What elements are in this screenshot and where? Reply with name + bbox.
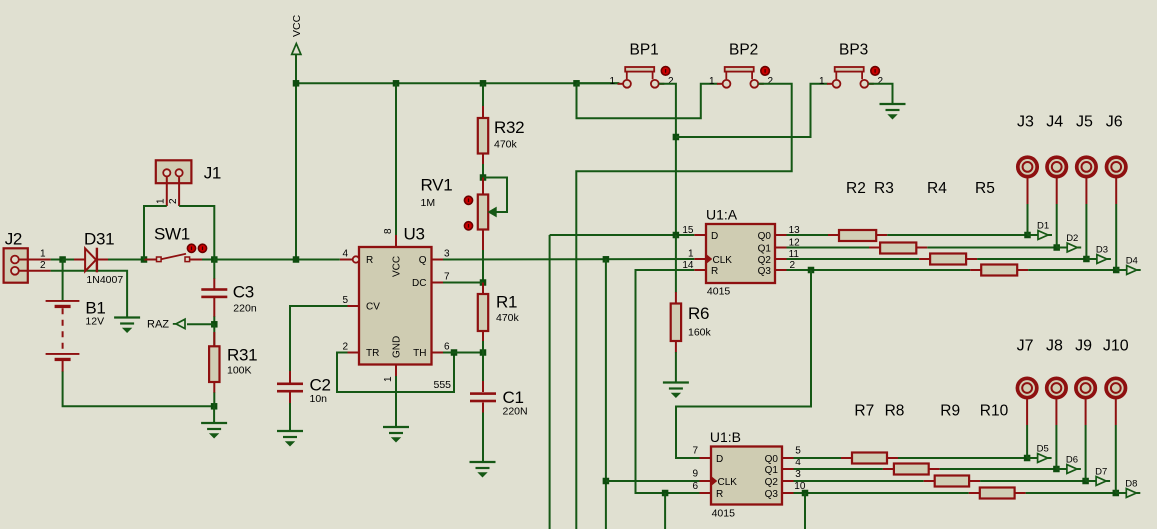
U3 pin 2 TR stub	[348, 352, 360, 354]
shift register U1:B body	[711, 447, 782, 505]
node D4 output arrow	[1116, 269, 1127, 271]
resistor R10	[969, 492, 980, 494]
switch SW1	[144, 259, 157, 261]
wire J1 pin2 to main line	[179, 206, 214, 260]
svg-text:2: 2	[768, 76, 774, 87]
svg-text:RAZ: RAZ	[147, 319, 169, 331]
op-amp U3 555 timer body	[359, 247, 432, 365]
svg-text:D3: D3	[1096, 245, 1108, 256]
svg-text:TR: TR	[366, 348, 379, 359]
U3 pin 6 TH stub	[432, 352, 444, 354]
svg-text:R1: R1	[496, 293, 517, 312]
svg-text:D6: D6	[1066, 455, 1078, 466]
junction rail/BP feed	[573, 80, 580, 87]
wire J9 to D7 node	[1085, 425, 1087, 481]
U1:B pin 6 R stub	[700, 492, 712, 494]
wire TH to C1 node	[443, 352, 483, 354]
svg-text:C1: C1	[503, 388, 524, 407]
wire Q1 to R8	[794, 468, 883, 470]
svg-text:D5: D5	[1037, 444, 1049, 455]
wire C1 to ground	[482, 413, 484, 463]
U1:B pin 10 Q3 stub	[782, 492, 794, 494]
svg-text:J10: J10	[1103, 338, 1129, 355]
ground C2	[277, 430, 303, 432]
wire R9 to J9 node D7	[980, 480, 1086, 482]
wire BP2 pin2 chain	[576, 84, 791, 529]
U1:B pin 3 Q2 stub	[782, 480, 794, 482]
svg-text:VCC: VCC	[392, 256, 403, 277]
capacitor C2	[289, 371, 291, 383]
U1:A pin 15 D stub	[694, 234, 706, 236]
node D6 output arrow	[1056, 468, 1067, 470]
junction R31/B1/ground	[211, 403, 218, 410]
svg-text:D: D	[711, 231, 718, 242]
junction rail/R32	[480, 80, 487, 87]
connector J1	[156, 160, 192, 183]
svg-text:J7: J7	[1017, 338, 1034, 355]
U1:B pin 7 D stub	[700, 457, 712, 459]
svg-text:5: 5	[795, 446, 801, 457]
svg-text:R7: R7	[854, 403, 874, 420]
junction DC node	[480, 279, 487, 286]
svg-text:BP2: BP2	[729, 42, 758, 59]
wire R5 to J6 node D4	[1028, 269, 1116, 271]
svg-text:2: 2	[878, 76, 884, 87]
svg-text:1: 1	[609, 76, 615, 87]
wire Q3 drop to bottom edge	[804, 493, 806, 529]
svg-text:Q0: Q0	[758, 231, 772, 242]
junction J10/D8	[1113, 490, 1120, 497]
wire DC to R1 node	[443, 282, 483, 284]
svg-text:D7: D7	[1095, 467, 1107, 478]
wire U3 pin8 from rail	[395, 83, 397, 236]
svg-text:VCC: VCC	[291, 14, 303, 37]
capacitor C1	[482, 381, 484, 392]
svg-text:R4: R4	[927, 180, 947, 197]
svg-text:10n: 10n	[310, 393, 328, 405]
junction BP1 chain / BP3 feed	[673, 134, 680, 141]
svg-text:R3: R3	[874, 180, 894, 197]
svg-text:U3: U3	[404, 225, 425, 244]
U1:A pin 1 CLK stub	[694, 258, 706, 260]
ground U3 pin1	[383, 426, 409, 428]
svg-text:9: 9	[692, 468, 698, 479]
svg-text:D4: D4	[1126, 256, 1138, 267]
svg-text:J8: J8	[1046, 338, 1063, 355]
junction RAZ node	[211, 321, 218, 328]
svg-text:4: 4	[342, 249, 348, 260]
wire J10 to D8 node	[1115, 425, 1117, 493]
wire R10 to J10 node D8	[1026, 492, 1116, 494]
svg-text:R8: R8	[885, 403, 905, 420]
wire J2 pin1 to node	[51, 259, 63, 261]
junction J5/D3	[1083, 256, 1090, 263]
svg-text:J1: J1	[204, 164, 221, 183]
U1:A pin 2 Q3 stub	[775, 269, 787, 271]
wire R8 to J8 node D6	[940, 468, 1057, 470]
node D2 output arrow	[1057, 247, 1068, 249]
wire C3 to RAZ node	[213, 317, 215, 325]
svg-text:U1:B: U1:B	[710, 429, 741, 445]
resistor R31	[213, 324, 215, 346]
wire rail to R32	[482, 83, 484, 107]
wire R31 to ground node	[213, 393, 215, 407]
svg-text:J2: J2	[5, 230, 22, 249]
U1:A pin 14 R stub	[694, 269, 706, 271]
node D8 output arrow	[1116, 492, 1127, 494]
junction J8/D6	[1053, 466, 1060, 473]
wire Q2 to R9	[794, 480, 924, 482]
wire R4 to J5 node D3	[977, 258, 1086, 260]
wire CV to C2	[290, 306, 348, 372]
node D7 output arrow	[1086, 480, 1097, 482]
U3 pin 5 CV stub	[348, 305, 360, 307]
svg-text:Q0: Q0	[765, 454, 779, 465]
svg-text:2: 2	[342, 342, 348, 353]
wire J3 to D1 node	[1027, 204, 1029, 235]
wire D node to R6	[675, 235, 677, 293]
svg-text:J9: J9	[1075, 338, 1092, 355]
svg-text:Q3: Q3	[758, 266, 772, 277]
resistor R5	[970, 269, 981, 271]
wire RV1 wiper loop	[483, 178, 507, 213]
svg-text:8: 8	[383, 228, 394, 234]
svg-text:3: 3	[444, 249, 450, 260]
U1:B pin 5 Q0 stub	[782, 457, 794, 459]
J1 pin 2 stub	[178, 176, 180, 206]
wire B1 minus to ground node	[63, 372, 215, 407]
svg-text:D2: D2	[1066, 233, 1078, 244]
potentiometer RV1	[482, 178, 484, 195]
svg-text:J6: J6	[1106, 114, 1123, 131]
ground R31/B1	[201, 422, 227, 424]
wire CLK to U1:B	[606, 480, 700, 482]
svg-text:1: 1	[709, 76, 715, 87]
svg-text:Q1: Q1	[765, 465, 779, 476]
junction J1 left leg	[141, 256, 148, 263]
svg-text:GND: GND	[392, 336, 403, 358]
wire R3 to J4 node D2	[927, 247, 1056, 249]
svg-text:J4: J4	[1046, 114, 1063, 131]
wire RAZ node to arrow	[187, 323, 214, 325]
svg-text:470k: 470k	[494, 139, 518, 151]
connector J8	[1047, 378, 1066, 397]
wire J6 to D4 node	[1115, 204, 1117, 270]
junction J3/D1	[1024, 232, 1031, 239]
wire D31 cathode to SW1	[108, 259, 144, 261]
svg-text:2: 2	[40, 260, 46, 271]
connector J6	[1107, 157, 1126, 176]
junction rail/VCC drop	[293, 80, 300, 87]
svg-text:R: R	[716, 489, 723, 500]
svg-text:6: 6	[444, 342, 450, 353]
power terminal VCC	[292, 44, 301, 55]
battery B1	[62, 260, 64, 301]
svg-text:RV1: RV1	[421, 176, 453, 195]
resistor R6	[675, 292, 677, 304]
wire R2 to J3 node D1	[887, 234, 1027, 236]
ground R6	[663, 381, 689, 383]
wire R line drop to bottom edge	[664, 493, 666, 529]
connector J2	[4, 248, 28, 282]
wire Q0 to R2	[787, 234, 840, 236]
svg-text:4015: 4015	[712, 508, 736, 520]
svg-text:R6: R6	[688, 304, 709, 323]
svg-text:SW1: SW1	[154, 225, 190, 244]
svg-text:1: 1	[383, 376, 394, 382]
node D1 output arrow	[1028, 234, 1039, 236]
resistor R32	[482, 106, 484, 118]
resistor R1	[482, 283, 484, 295]
wire Q2 to R4	[787, 258, 920, 260]
svg-text:160k: 160k	[688, 327, 712, 339]
wire U1:A Q3 to U1:B D	[676, 270, 811, 458]
wire VCC drop to main line	[295, 54, 297, 259]
junction Q line / U1:B CLK drop	[603, 256, 610, 263]
connector J4	[1047, 157, 1066, 176]
svg-text:TH: TH	[413, 348, 426, 359]
junction CLK U1:B node	[603, 478, 610, 485]
push button BP1	[625, 67, 654, 72]
wire node to D31 anode	[63, 259, 75, 261]
wire Q0 to R7	[794, 457, 842, 459]
U3 pin 1 GND stub	[395, 365, 397, 377]
svg-text:Q2: Q2	[758, 255, 772, 266]
J2 pin 1 stub	[19, 259, 51, 261]
svg-text:100K: 100K	[227, 365, 252, 377]
wire R7 to J7 node D5	[898, 457, 1027, 459]
wire vertical from D line corner to bottom edge	[549, 235, 551, 529]
J1 pin 1 stub	[166, 176, 168, 206]
svg-text:7: 7	[444, 272, 450, 283]
svg-text:1: 1	[40, 249, 46, 260]
wire J2 pin2 to ground	[51, 271, 128, 318]
svg-text:C3: C3	[233, 283, 254, 302]
resistor R4	[919, 258, 930, 260]
svg-text:BP3: BP3	[839, 42, 868, 59]
junction TH node	[480, 349, 487, 356]
svg-text:Q: Q	[419, 255, 427, 266]
svg-text:220n: 220n	[233, 303, 257, 315]
wire U3 Q to U1:A CLK	[443, 258, 694, 261]
wire SW1 node to VCC junction to U3	[214, 259, 339, 261]
wire Q drop to U1:B CLK	[605, 259, 607, 529]
push button BP3	[835, 67, 864, 72]
svg-text:R: R	[711, 266, 718, 277]
wire R6 to ground	[675, 352, 677, 383]
wire U1:A R chain to U1:B R	[636, 270, 700, 493]
connector J10	[1106, 378, 1125, 397]
connector J3	[1018, 157, 1037, 176]
wire C2 to ground	[289, 403, 291, 431]
shift register U1:A body	[706, 224, 775, 283]
junction R32/RV1 wiper	[480, 174, 487, 181]
svg-text:12V: 12V	[85, 316, 104, 328]
junction Q3 bottom drop	[802, 490, 809, 497]
wire BP3 pin2 to ground	[868, 84, 892, 104]
junction main/VCC drop	[293, 256, 300, 263]
svg-text:R32: R32	[494, 118, 524, 137]
svg-text:2: 2	[168, 198, 179, 204]
wire to ground	[213, 406, 215, 423]
wire BP1 pin2 chain down	[659, 84, 676, 235]
svg-text:R5: R5	[975, 180, 995, 197]
diode D31	[74, 259, 85, 261]
node RAZ input terminal	[176, 319, 185, 328]
wire Q3 to R10	[794, 492, 969, 494]
svg-text:2: 2	[668, 76, 674, 87]
svg-text:4015: 4015	[707, 286, 731, 298]
wire J8 to D6 node	[1055, 425, 1057, 469]
junction J6/D4	[1113, 267, 1120, 274]
svg-text:7: 7	[692, 446, 698, 457]
svg-text:C2: C2	[310, 376, 331, 395]
svg-text:1: 1	[819, 76, 825, 87]
svg-text:U1:A: U1:A	[706, 207, 738, 223]
svg-text:D31: D31	[84, 230, 114, 249]
U1:A pin 11 Q2 stub	[775, 258, 787, 260]
svg-text:Q3: Q3	[765, 489, 779, 500]
U3 pin 7 DC stub	[432, 282, 444, 284]
svg-text:J3: J3	[1017, 114, 1034, 131]
svg-text:1: 1	[688, 248, 694, 259]
resistor R8	[883, 468, 894, 470]
wire TR-TH loop	[337, 353, 454, 393]
wire R1 to TH node	[482, 341, 484, 353]
svg-text:CV: CV	[366, 302, 380, 313]
resistor R7	[841, 457, 852, 459]
wire BP3 feed	[676, 84, 828, 137]
svg-text:220N: 220N	[503, 406, 528, 418]
svg-text:D8: D8	[1125, 479, 1137, 490]
wire J5 to D3 node	[1085, 204, 1087, 259]
U3 pin 4 R with bubble	[340, 259, 353, 261]
wire J4 to D2 node	[1056, 204, 1058, 248]
svg-text:1N4007: 1N4007	[86, 274, 123, 286]
wire J7 to D5 node	[1026, 425, 1028, 458]
wire R32 to RV1 node	[482, 164, 484, 178]
U1:A pin 12 Q1 stub	[775, 247, 787, 249]
junction Q3 / U1:B D chain	[808, 267, 815, 274]
ground J2 pin2	[114, 316, 140, 318]
U3 pin 8 VCC stub	[395, 235, 397, 247]
junction J7/D5	[1024, 455, 1031, 462]
wire D line to U1:A	[550, 234, 695, 236]
svg-text:Q2: Q2	[765, 477, 779, 488]
svg-text:R2: R2	[846, 180, 866, 197]
svg-text:D1: D1	[1037, 221, 1049, 232]
wire VCC rail	[296, 82, 619, 84]
wire rail to BP1 pin1	[577, 82, 620, 84]
svg-text:555: 555	[434, 379, 452, 391]
wire Q3 to R5	[787, 269, 971, 271]
svg-text:D: D	[716, 454, 723, 465]
resistor R9	[924, 480, 935, 482]
connector J5	[1077, 157, 1096, 176]
U1:B pin 4 Q1 stub	[782, 468, 794, 470]
connector J9	[1076, 378, 1095, 397]
svg-text:R: R	[366, 255, 373, 266]
svg-text:CLK: CLK	[718, 477, 738, 488]
junction J2/B1/D31	[59, 256, 66, 263]
connector J7	[1017, 378, 1036, 397]
junction TR loop / TH line	[451, 349, 458, 356]
junction U1:B R / bottom drop	[662, 490, 669, 497]
push button BP2	[725, 67, 754, 72]
svg-text:J5: J5	[1076, 114, 1093, 131]
junction rail/U3 pin8	[393, 80, 400, 87]
U1:B pin 9 CLK stub	[700, 480, 712, 482]
svg-text:470k: 470k	[496, 312, 520, 324]
wire U3 pin1 to ground	[395, 376, 397, 427]
wire RV1 to DC node	[482, 230, 484, 252]
resistor R3	[869, 247, 880, 249]
svg-text:Q1: Q1	[758, 244, 772, 255]
wire main to C3	[213, 260, 215, 280]
svg-text:5: 5	[342, 295, 348, 306]
wire J1 pin1 to main line	[144, 206, 167, 260]
wire TH node to C1	[482, 353, 484, 382]
svg-text:1: 1	[156, 198, 167, 204]
junction J1 right leg / C3	[211, 256, 218, 263]
svg-text:1M: 1M	[421, 197, 436, 209]
wire rail to BP2 pin1	[577, 83, 718, 118]
svg-text:3: 3	[795, 469, 801, 480]
svg-text:R10: R10	[980, 403, 1009, 420]
svg-text:R31: R31	[227, 346, 257, 365]
svg-text:CLK: CLK	[713, 255, 733, 266]
resistor R2	[828, 234, 839, 236]
svg-text:BP1: BP1	[630, 42, 659, 59]
svg-text:6: 6	[692, 481, 698, 492]
capacitor C3	[213, 279, 215, 290]
node D3 output arrow	[1086, 258, 1097, 260]
svg-text:R9: R9	[940, 403, 960, 420]
wire Q1 to R3	[787, 247, 870, 249]
svg-text:DC: DC	[412, 278, 426, 289]
ground C1	[470, 461, 496, 463]
J2 pin 2 stub	[19, 270, 51, 272]
junction J9/D7	[1082, 478, 1089, 485]
junction J4/D2	[1053, 244, 1060, 251]
U3 pin 3 Q stub	[432, 259, 444, 261]
wire SW1 to J1 right node	[202, 259, 214, 261]
node D5 output arrow	[1027, 457, 1038, 459]
U1:A pin 13 Q0 stub	[775, 234, 787, 236]
ground BP3	[880, 103, 906, 105]
junction D line / R6 / BP1 chain	[673, 232, 680, 239]
